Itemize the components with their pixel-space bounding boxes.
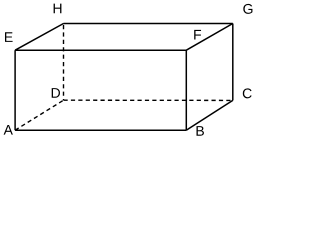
edge CB <box>186 100 233 130</box>
vertex label D <box>52 88 60 98</box>
vertex label A <box>4 125 13 135</box>
vertex label G <box>243 4 252 14</box>
edge GF <box>186 24 233 51</box>
vertex label B <box>196 126 203 136</box>
edge AD hidden dashed <box>15 100 63 130</box>
edge EH <box>15 24 63 51</box>
edge HD hidden dashed <box>63 25 65 100</box>
edge EF <box>15 49 186 51</box>
edge AB <box>15 129 186 131</box>
vertex label F <box>194 30 201 40</box>
edge HG <box>64 23 233 25</box>
edge GC <box>232 24 234 101</box>
vertex label E <box>5 32 13 42</box>
edge BF <box>185 50 187 130</box>
vertex label H <box>54 4 62 14</box>
edge EA <box>14 50 16 130</box>
edge DC hidden dashed <box>64 99 233 101</box>
vertex label C <box>243 88 252 98</box>
